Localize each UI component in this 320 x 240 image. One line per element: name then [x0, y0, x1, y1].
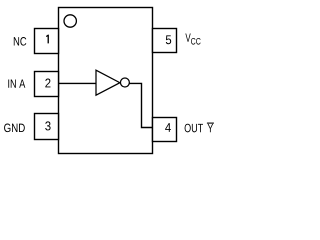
IC package body	[59, 8, 153, 154]
pin 2 box	[35, 72, 59, 97]
label IN A (pin 2)	[8, 79, 25, 87]
pin 1 number	[46, 35, 49, 44]
pin 1 indicator circle	[64, 15, 76, 27]
pin 3 number	[45, 121, 50, 130]
label VCC (pin 5) - V	[185, 33, 190, 41]
pin 2 number	[45, 79, 50, 88]
wire from bubble to pin 4	[129, 83, 152, 127]
label OUT (pin 4)	[185, 124, 203, 133]
pin 5 box	[153, 29, 177, 53]
wire from pin 2 to inverter input	[59, 82, 97, 84]
inverter gate triangle	[96, 70, 120, 95]
pin 1 box	[35, 29, 59, 54]
label GND (pin 3)	[4, 124, 25, 133]
pin 3 box	[35, 114, 59, 140]
label Y of OUT Y-bar	[208, 124, 214, 132]
label NC (pin 1)	[14, 37, 27, 46]
pin 5 number	[166, 35, 171, 44]
overline over Y	[207, 122, 214, 124]
inverter output bubble	[120, 78, 129, 87]
pin 4 number	[165, 123, 171, 132]
label VCC subscript CC	[191, 38, 201, 45]
pin 4 box	[153, 118, 177, 142]
